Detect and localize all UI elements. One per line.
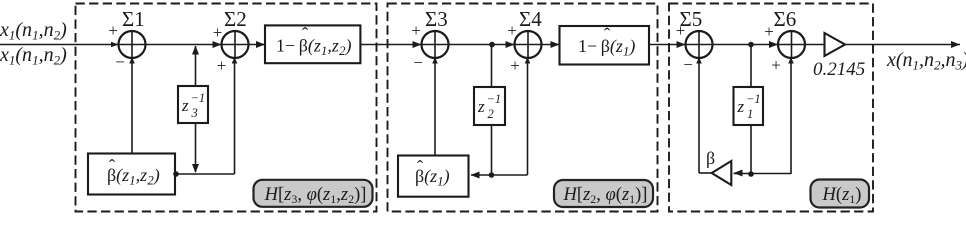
svg-text:ˆ: ˆ — [604, 25, 611, 46]
svg-text:0.2145: 0.2145 — [813, 59, 865, 80]
svg-text:Σ2: Σ2 — [224, 7, 247, 31]
svg-text:−1: −1 — [487, 92, 502, 106]
svg-text:+: + — [213, 23, 223, 42]
svg-text:+: + — [108, 21, 118, 40]
svg-text:+: + — [771, 56, 781, 75]
svg-text:z: z — [181, 96, 189, 115]
svg-text:+: + — [411, 21, 421, 40]
svg-text:z: z — [477, 97, 485, 116]
svg-text:ˆ: ˆ — [302, 25, 309, 46]
svg-text:+: + — [217, 56, 227, 75]
svg-text:2: 2 — [488, 107, 494, 121]
svg-text:x(n1,n2,n3): x(n1,n2,n3) — [886, 49, 966, 73]
svg-text:3: 3 — [191, 106, 198, 120]
svg-text:1: 1 — [747, 107, 753, 121]
svg-text:ˆ: ˆ — [109, 157, 116, 178]
svg-text:H(z1): H(z1) — [822, 185, 862, 206]
svg-text:H[z2, φ(z1)]: H[z2, φ(z1)] — [563, 185, 648, 206]
svg-text:Σ6: Σ6 — [774, 7, 797, 31]
svg-text:+: + — [676, 21, 686, 40]
svg-text:Σ4: Σ4 — [519, 7, 542, 31]
svg-text:β: β — [706, 148, 715, 168]
svg-text:+: + — [507, 21, 517, 40]
svg-text:+: + — [764, 22, 774, 41]
svg-text:−: − — [413, 53, 423, 72]
svg-text:Σ1: Σ1 — [122, 7, 145, 31]
svg-text:−1: −1 — [746, 92, 761, 106]
svg-text:Σ3: Σ3 — [425, 7, 448, 31]
svg-text:z: z — [737, 97, 745, 116]
svg-text:−: − — [683, 55, 693, 74]
svg-text:ˆ: ˆ — [417, 158, 424, 179]
svg-text:−: − — [115, 53, 125, 72]
svg-text:−1: −1 — [191, 91, 206, 105]
svg-text:+: + — [510, 56, 520, 75]
